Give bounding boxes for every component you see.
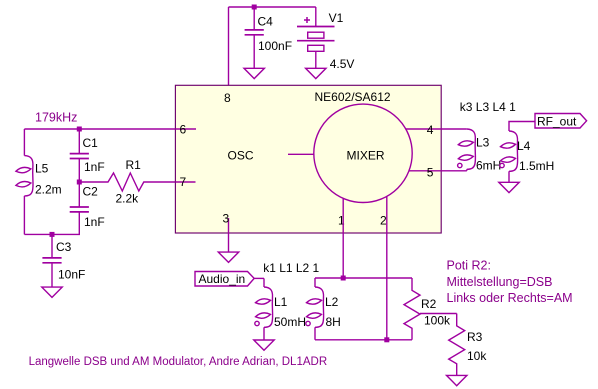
svg-text:10nF: 10nF — [58, 268, 85, 282]
output port RF_out — [535, 114, 587, 129]
svg-text:k1 L1 L2 1: k1 L1 L2 1 — [263, 261, 319, 275]
comment Poti R2 — [447, 259, 491, 273]
ground below C3 — [42, 287, 62, 297]
svg-text:1nF: 1nF — [84, 215, 105, 229]
svg-text:Audio_in: Audio_in — [199, 272, 246, 286]
wire pin 1 down — [342, 198, 344, 278]
svg-text:100nF: 100nF — [258, 39, 292, 53]
capacitor C1 — [70, 129, 105, 182]
svg-text:V1: V1 — [329, 11, 344, 25]
inductor L4 — [500, 131, 555, 182]
ground below L1 — [254, 340, 274, 350]
comment Links oder Rechts — [447, 291, 573, 305]
wire bottom rail — [24, 233, 80, 235]
svg-text:R2: R2 — [421, 297, 437, 311]
MIXER label — [347, 149, 385, 163]
svg-text:1.5mH: 1.5mH — [519, 159, 554, 173]
svg-text:50mH: 50mH — [274, 315, 306, 329]
resistor R3 — [449, 314, 488, 376]
svg-text:10k: 10k — [467, 349, 487, 363]
svg-text:5: 5 — [427, 166, 434, 180]
svg-text:C1: C1 — [83, 136, 99, 150]
ground below V1 — [306, 68, 326, 78]
svg-text:6mH: 6mH — [476, 159, 501, 173]
wire L2 bottom to R2 bottom — [315, 339, 412, 341]
voltage source V1 battery — [297, 7, 354, 71]
ground below pin 3 — [218, 252, 238, 262]
inductor L3 — [458, 129, 502, 173]
ground below C4 — [244, 68, 264, 78]
wire pin 2 down — [386, 196, 388, 340]
op-amp U1 NE602/SA612 body — [175, 85, 441, 233]
node junction top rail / C4 — [252, 5, 257, 10]
mixer circle — [314, 104, 412, 202]
OSC label — [228, 149, 254, 163]
svg-text:4.5V: 4.5V — [330, 57, 355, 71]
pin 6 stub — [175, 128, 196, 130]
title text — [29, 356, 328, 368]
wire OSC to mixer — [288, 153, 314, 155]
svg-text:C3: C3 — [56, 240, 72, 254]
capacitor C4 — [245, 7, 292, 68]
svg-text:Mittelstellung=DSB: Mittelstellung=DSB — [447, 275, 553, 289]
wire pin 5 to L3 — [441, 170, 467, 172]
svg-text:MIXER: MIXER — [347, 149, 385, 163]
pin 4 line inside — [406, 128, 441, 130]
wire pin 4 to L3 — [441, 128, 467, 130]
inductor L2 — [306, 278, 341, 340]
svg-text:2: 2 — [380, 214, 387, 228]
svg-text:k3 L3 L4 1: k3 L3 L4 1 — [460, 100, 516, 114]
pin 5 number — [427, 166, 434, 180]
coupling statement k3 L3 L4 1 — [460, 100, 516, 114]
wire top supply rail — [229, 6, 316, 8]
svg-text:L3: L3 — [476, 136, 490, 150]
svg-text:L5: L5 — [35, 162, 49, 176]
wire pin 3 to ground — [228, 233, 230, 252]
svg-text:179kHz: 179kHz — [35, 111, 77, 125]
ground below R3 — [447, 375, 467, 385]
capacitor C2 — [70, 182, 105, 234]
pin 8 number — [224, 91, 231, 105]
svg-text:2.2m: 2.2m — [35, 183, 62, 197]
svg-text:Poti R2:: Poti R2: — [447, 259, 491, 273]
wire R2 wiper to R3 — [420, 313, 457, 315]
svg-text:8H: 8H — [326, 315, 341, 329]
pin 5 line inside — [409, 170, 441, 172]
pin 6 number — [180, 123, 187, 137]
svg-text:2.2k: 2.2k — [116, 192, 140, 206]
svg-text:4: 4 — [427, 123, 434, 137]
net label 179kHz — [35, 111, 77, 125]
comment Mittelstellung — [447, 275, 553, 289]
svg-text:1: 1 — [338, 214, 345, 228]
svg-text:R3: R3 — [467, 330, 483, 344]
wire L2 top to R2 — [315, 277, 412, 279]
inductor L1 — [255, 278, 306, 340]
pin 3 stub — [228, 218, 230, 233]
node junction C1/C2/R1 — [77, 180, 82, 185]
svg-text:1nF: 1nF — [84, 160, 105, 174]
svg-text:L4: L4 — [517, 139, 531, 153]
input port Audio_in — [195, 272, 254, 287]
inductor L5 — [15, 129, 61, 234]
svg-text:7: 7 — [180, 175, 187, 189]
svg-text:Links oder Rechts=AM: Links oder Rechts=AM — [447, 291, 573, 305]
svg-text:L2: L2 — [325, 295, 339, 309]
wire L4 top to RF_out — [509, 122, 535, 132]
wire supply rail down to pin 8 — [228, 7, 230, 85]
svg-text:6: 6 — [180, 123, 187, 137]
node junction bottom rail / C3 — [50, 232, 55, 237]
svg-text:OSC: OSC — [228, 149, 254, 163]
resistor R2 — [404, 278, 451, 340]
svg-text:8: 8 — [224, 91, 231, 105]
resistor R1 — [79, 158, 175, 206]
node junction 179kHz / C1 top — [77, 127, 82, 132]
svg-text:NE602/SA612: NE602/SA612 — [315, 90, 391, 104]
wire node row to pin 6 — [24, 128, 175, 130]
pin 1 number — [338, 214, 345, 228]
pin 3 number — [223, 212, 230, 226]
pin 2 number — [380, 214, 387, 228]
U1 label NE602/SA612 — [315, 90, 391, 104]
coupling statement k1 L1 L2 1 — [263, 261, 319, 275]
capacitor C3 — [42, 234, 85, 287]
svg-text:100k: 100k — [424, 314, 451, 328]
svg-text:RF_out: RF_out — [537, 115, 577, 129]
pin 7 number — [180, 175, 187, 189]
pin 7 stub — [175, 181, 195, 183]
svg-text:C4: C4 — [258, 15, 274, 29]
svg-text:3: 3 — [223, 212, 230, 226]
node junction pin2 / L2 bottom — [384, 337, 389, 342]
svg-text:R1: R1 — [126, 158, 142, 172]
pin 4 number — [427, 123, 434, 137]
ground below L4 — [499, 182, 519, 192]
svg-text:L1: L1 — [274, 295, 288, 309]
wire Audio_in to L1 — [254, 277, 264, 279]
svg-text:Langwelle DSB und AM Modulator: Langwelle DSB und AM Modulator, Andre Ad… — [29, 356, 328, 368]
node junction pin1 / L2 top — [341, 276, 346, 281]
svg-text:C2: C2 — [83, 185, 99, 199]
